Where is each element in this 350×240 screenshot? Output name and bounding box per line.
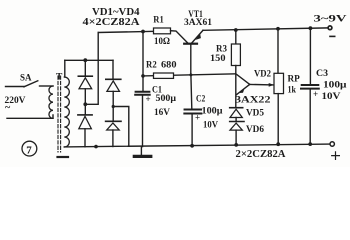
wire VD5 to VD6 — [235, 118, 237, 122]
wire bridge top — [65, 59, 113, 61]
node bridge left column top — [83, 58, 87, 62]
svg-text:~: ~ — [5, 103, 11, 114]
node RP bottom junction — [276, 142, 280, 146]
wire mid stub to positive riser — [113, 107, 129, 147]
svg-text:10Ω: 10Ω — [154, 37, 170, 47]
svg-text:T: T — [56, 73, 63, 83]
wire mid stub to negative riser — [85, 33, 98, 105]
terminal output negative — [328, 26, 332, 30]
transistor VT1 base bar — [184, 43, 197, 45]
svg-text:10V: 10V — [203, 121, 218, 131]
wire left column bottom — [84, 129, 86, 147]
diode VD3 — [79, 116, 92, 128]
transistor VD2 upper lead — [236, 74, 250, 85]
wire C1 lower lead — [142, 96, 144, 147]
ground bar — [134, 155, 151, 158]
transformer core — [58, 76, 61, 152]
wire R3 lower lead — [235, 66, 237, 74]
wire 220V top lead — [6, 86, 25, 88]
transistor VT1 collector arrow — [196, 33, 201, 40]
wire C3 upper lead — [309, 28, 311, 84]
wire VD6 lower lead — [235, 130, 237, 145]
svg-text:VD2: VD2 — [254, 70, 271, 80]
wire positive bottom rail — [64, 144, 330, 147]
diode VD2b cathode bar — [106, 78, 121, 80]
node bottom rail junction — [94, 145, 98, 149]
diode VD4 cathode bar — [106, 120, 121, 122]
svg-text:+: + — [146, 94, 151, 104]
svg-text:100μ: 100μ — [202, 107, 224, 117]
transformer core bottom bar — [58, 156, 69, 158]
svg-text:R2: R2 — [146, 60, 157, 70]
svg-text:C3: C3 — [316, 69, 328, 79]
node VT1 base / C2 junction — [189, 73, 192, 76]
wire C2 upper lead — [190, 75, 193, 109]
node right column mid junction — [112, 105, 115, 108]
transformer T primary winding — [49, 86, 53, 118]
capacitor C3 — [301, 85, 319, 89]
svg-text:16V: 16V — [154, 108, 170, 118]
wire right column middle — [112, 91, 114, 121]
wire VT1 base lead down — [190, 44, 192, 75]
svg-text:VD6: VD6 — [246, 125, 264, 135]
svg-text:+: + — [195, 113, 200, 123]
wire switch to transformer primary top — [40, 85, 54, 87]
wire R3 upper lead — [235, 30, 237, 44]
wire C2 lower lead — [191, 115, 193, 146]
svg-text:VD5: VD5 — [246, 109, 264, 119]
node C3 top junction — [309, 26, 313, 30]
figure number circled 7 — [22, 141, 37, 156]
wire right column top — [112, 60, 114, 79]
wire right column bottom — [112, 130, 114, 147]
svg-text:R1: R1 — [153, 15, 164, 25]
wire left column upper — [84, 60, 86, 76]
svg-text:100μ: 100μ — [323, 80, 347, 90]
transistor VT1 collector — [192, 30, 204, 43]
node VD6 bottom junction — [234, 143, 238, 147]
terminal output positive — [330, 142, 334, 146]
transformer T secondary winding — [64, 77, 69, 147]
transistor VD2 emitter arrowhead — [240, 88, 245, 93]
node R2 left junction — [141, 74, 145, 78]
wire C1 upper lead — [142, 32, 144, 92]
svg-text:680: 680 — [161, 60, 177, 70]
diode VD3 cathode bar — [78, 114, 92, 116]
svg-text:VD1~VD4: VD1~VD4 — [92, 7, 140, 18]
node C1 top junction — [141, 30, 145, 34]
diode VD5 — [230, 109, 242, 117]
capacitor C1 — [135, 92, 150, 95]
transistor VT1 emitter — [171, 31, 189, 44]
svg-text:500μ: 500μ — [156, 94, 177, 104]
wire secondary top riser — [64, 60, 66, 77]
diode VD1 — [79, 78, 92, 89]
wire negative top rail right section — [203, 28, 328, 30]
label output minus — [330, 35, 335, 37]
RP wiper arrowhead — [269, 83, 274, 87]
node R3 top junction — [234, 28, 238, 32]
svg-text:7: 7 — [26, 144, 32, 156]
ground stub — [140, 147, 142, 155]
resistor R3 — [231, 44, 240, 66]
capacitor C2 — [184, 110, 201, 114]
svg-text:3AX22: 3AX22 — [235, 95, 271, 105]
wire 220V bottom lead — [7, 115, 53, 118]
resistor R1 — [154, 28, 171, 34]
diode VD5 cathode bar — [230, 107, 243, 109]
transistor VD2 emitter with arrow — [237, 84, 250, 94]
svg-text:1k: 1k — [288, 85, 297, 95]
wire RP upper lead — [277, 29, 279, 74]
svg-text:R3: R3 — [216, 44, 227, 54]
label output plus — [332, 152, 340, 160]
svg-text:3~9V: 3~9V — [314, 14, 347, 24]
diode VD4 — [107, 123, 120, 130]
diode VD6 — [230, 123, 242, 130]
diode VD2b — [107, 81, 120, 92]
wire C3 lower lead — [309, 90, 311, 145]
svg-text:150: 150 — [210, 54, 226, 64]
svg-text:+: + — [313, 89, 318, 99]
node C2 bottom junction — [190, 144, 194, 148]
svg-text:C2: C2 — [196, 95, 205, 105]
svg-text:4×2CZ82A: 4×2CZ82A — [83, 17, 141, 28]
transistor VD2 vertical bar — [235, 74, 237, 108]
wire left column middle — [84, 89, 86, 115]
resistor R2 — [154, 73, 174, 78]
svg-text:2×2CZ82A: 2×2CZ82A — [236, 149, 287, 160]
wire mid rail R2 to VD2 — [143, 74, 236, 76]
switch SA blade — [24, 81, 38, 87]
svg-text:3AX61: 3AX61 — [184, 18, 212, 28]
svg-text:SA: SA — [20, 74, 32, 84]
svg-text:10V: 10V — [322, 92, 341, 102]
svg-text:RP: RP — [288, 74, 300, 84]
wire RP lower lead — [277, 94, 279, 145]
node left column mid junction — [83, 102, 87, 106]
wire negative top rail left section — [98, 31, 170, 33]
diode VD6 cathode bar — [230, 121, 244, 123]
node RP top junction — [276, 27, 280, 31]
diode VD1 cathode bar — [78, 75, 92, 77]
node C3 bottom junction — [308, 142, 312, 146]
wire VD2 to RP wiper — [250, 83, 273, 86]
potentiometer RP — [274, 73, 284, 93]
